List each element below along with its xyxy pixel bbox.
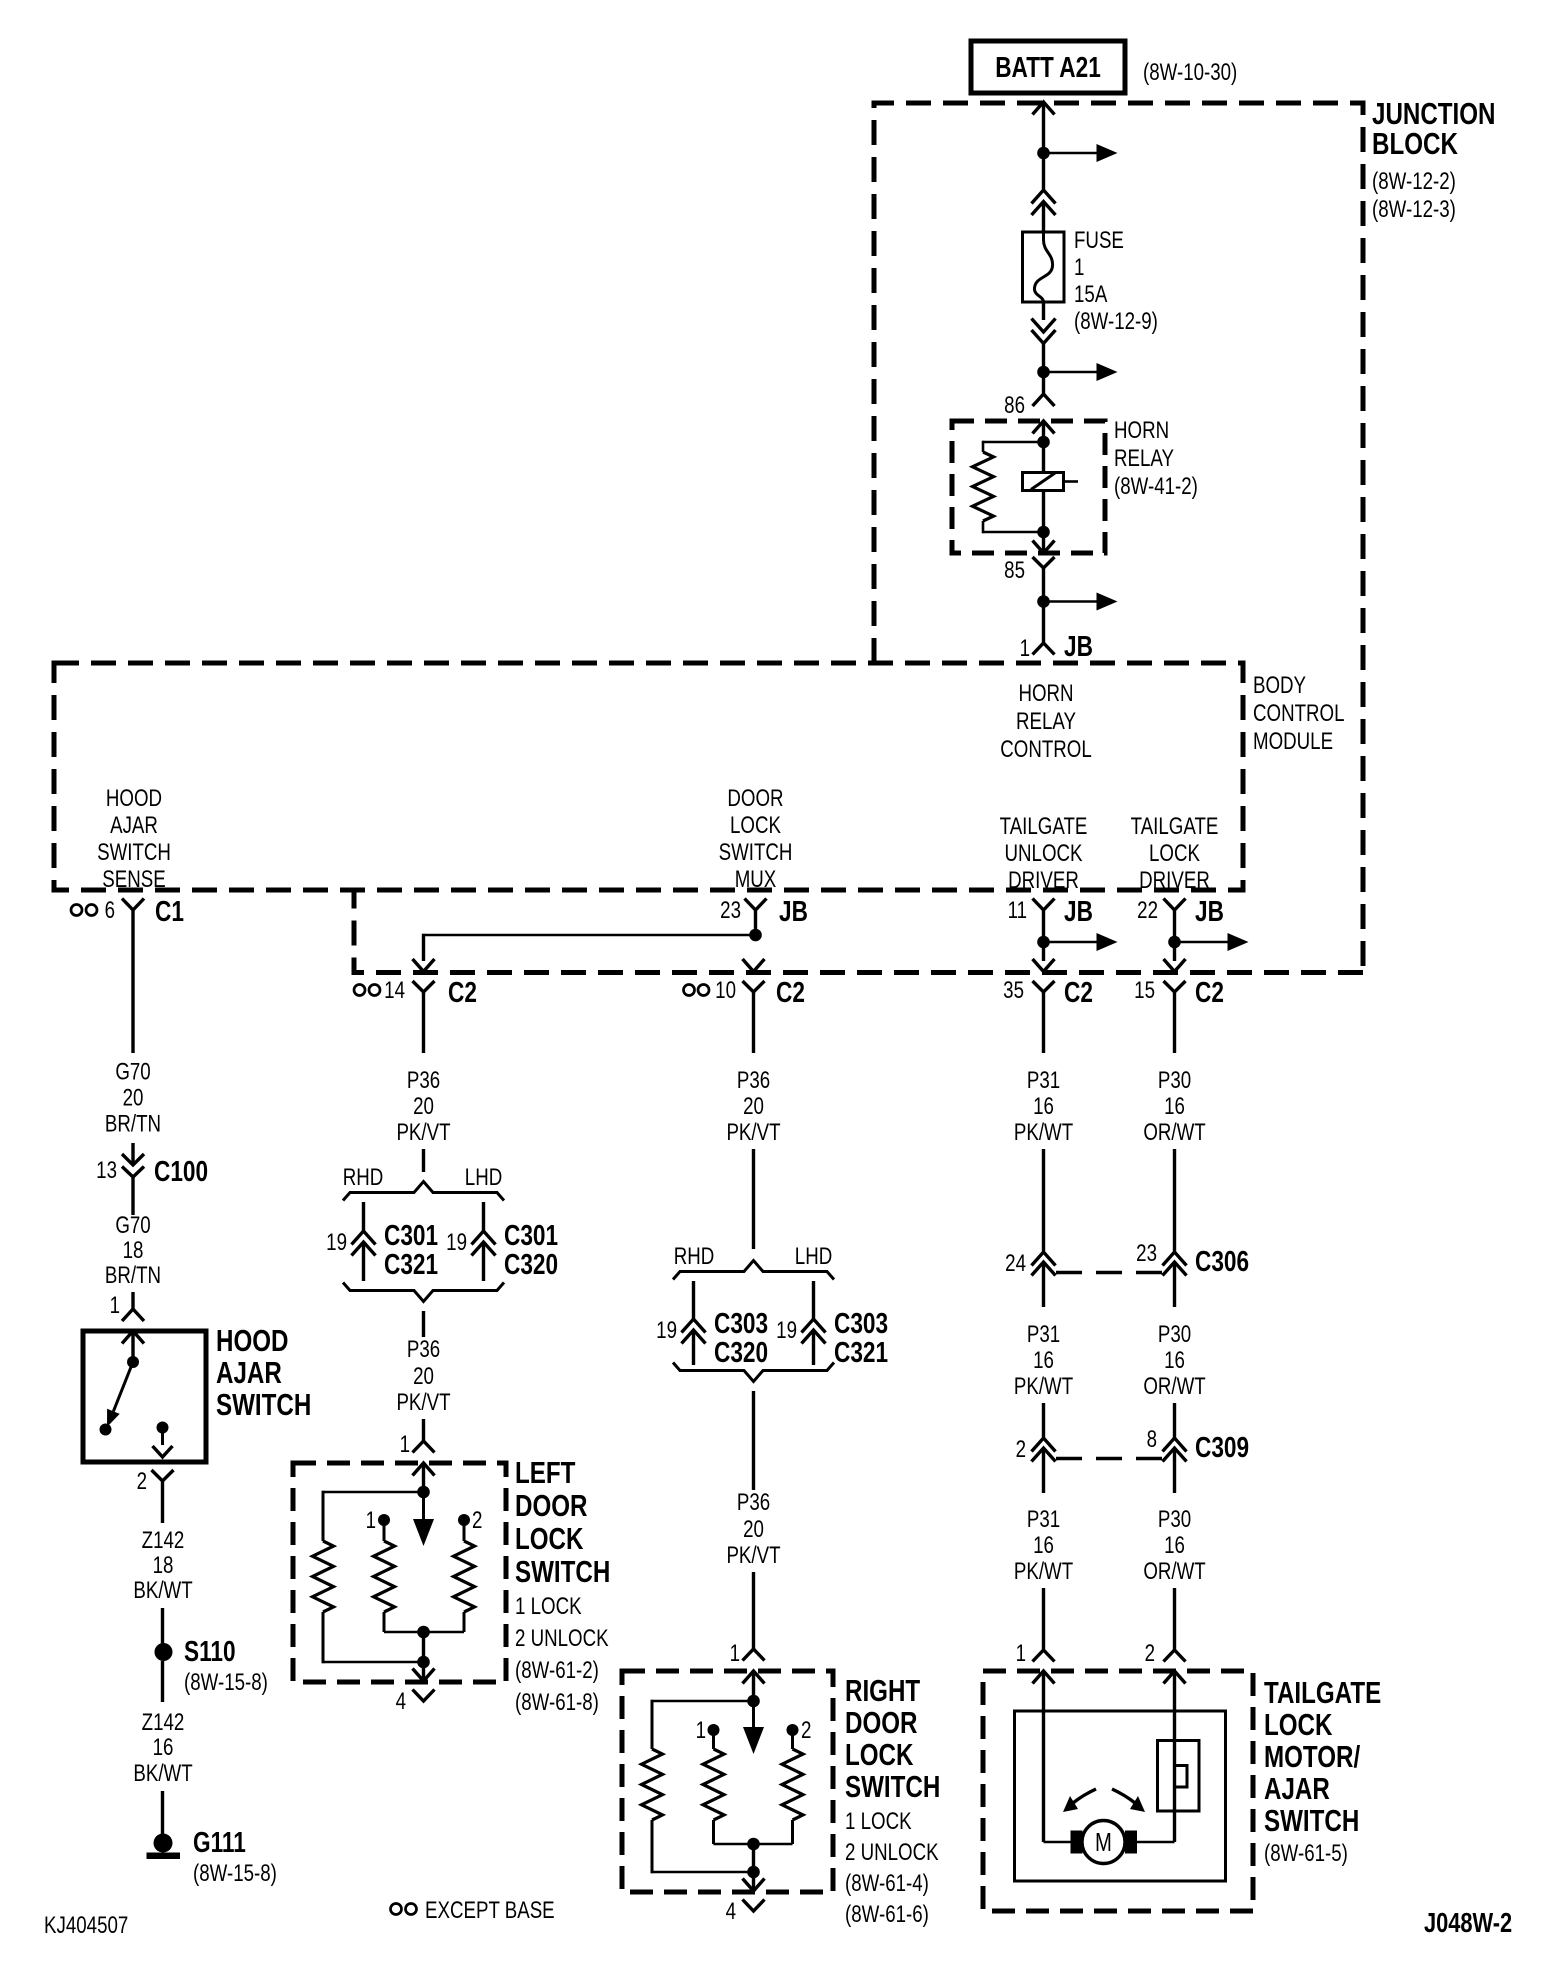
svg-text:20: 20 (413, 1093, 434, 1120)
wire to G111 (161, 1791, 164, 1835)
right door pin 4 male (743, 1872, 765, 1891)
right door lock switch dashed box (622, 1671, 833, 1892)
wire to right door switch pin 1 (752, 1572, 755, 1649)
svg-text:18: 18 (123, 1237, 144, 1264)
svg-text:1 LOCK: 1 LOCK (515, 1593, 582, 1620)
right door contact 1 (708, 1724, 720, 1749)
svg-text:SWITCH: SWITCH (719, 839, 793, 866)
wire fuse to connector (1042, 302, 1045, 320)
label pin 4 right door (726, 1898, 736, 1925)
tailgate unlock driver label (1000, 813, 1088, 894)
label C301 C320 (504, 1218, 558, 1280)
svg-text:1: 1 (730, 1640, 740, 1667)
svg-text:P31: P31 (1027, 1506, 1060, 1533)
svg-text:2: 2 (801, 1717, 811, 1744)
svg-text:PK/VT: PK/VT (726, 1542, 780, 1569)
wire label Z142 18 BK/WT (133, 1527, 192, 1604)
relay coil resistor (973, 452, 994, 521)
svg-text:16: 16 (1164, 1093, 1185, 1120)
right door resistor lock (703, 1749, 724, 1820)
svg-text:4: 4 (726, 1898, 736, 1925)
label 22 JB (1137, 894, 1224, 927)
connector left door pin 1 female (413, 1441, 435, 1453)
tailgate label (1264, 1675, 1381, 1866)
left door node bottom (417, 1656, 430, 1669)
connector pin 85 female (1033, 557, 1055, 602)
svg-text:G70: G70 (115, 1058, 150, 1085)
svg-text:Z142: Z142 (142, 1527, 185, 1554)
label pin 1 right door (730, 1640, 740, 1667)
svg-text:C100: C100 (154, 1154, 208, 1187)
right door pin 1 male (743, 1671, 765, 1701)
label 1 JB (1020, 629, 1093, 662)
connector right door pin 4 (743, 1900, 765, 1912)
footer plate code KJ404507 (44, 1912, 128, 1939)
right door resistor unlock (782, 1749, 803, 1820)
svg-text:2: 2 (137, 1468, 147, 1495)
svg-text:SWITCH: SWITCH (97, 839, 171, 866)
svg-text:2 UNLOCK: 2 UNLOCK (515, 1625, 609, 1652)
connector C309 pin 2 (1032, 1438, 1056, 1493)
branch wire RHD col2 (362, 1202, 365, 1231)
svg-text:P31: P31 (1027, 1321, 1060, 1348)
svg-text:16: 16 (1033, 1532, 1054, 1559)
svg-text:OR/WT: OR/WT (1143, 1119, 1205, 1146)
svg-text:LEFT: LEFT (515, 1455, 575, 1490)
svg-text:SWITCH: SWITCH (1264, 1803, 1359, 1838)
svg-text:1: 1 (696, 1717, 706, 1744)
label contact 2 right door (801, 1717, 811, 1744)
horn relay control label (1000, 680, 1092, 763)
wire node to relay pin 86 (1042, 372, 1045, 394)
label 24 (1005, 1250, 1026, 1277)
wire label P36 20 PK/VT (col3 upper) (726, 1067, 780, 1146)
svg-text:LHD: LHD (465, 1164, 502, 1191)
left door resistor lock (374, 1541, 395, 1612)
svg-text:PK/WT: PK/WT (1014, 1373, 1073, 1400)
wire JB11 to C2 35 (1042, 942, 1045, 961)
arrow feed right 1 (1044, 144, 1118, 162)
svg-text:BK/WT: BK/WT (133, 1577, 192, 1604)
svg-text:35: 35 (1003, 977, 1024, 1004)
tailgate lock motor dashed box (983, 1671, 1253, 1911)
motor brush left (1071, 1831, 1083, 1854)
svg-text:P31: P31 (1027, 1067, 1060, 1094)
wire JB22 to C2 15 (1173, 942, 1176, 961)
label 6 C1 (105, 894, 184, 927)
connector C2 pin 35 (1033, 959, 1055, 1053)
wire label P31 16 PK/WT (mid) (1014, 1321, 1073, 1400)
left door wire r2 to bus (463, 1612, 466, 1632)
fuse label (1074, 227, 1158, 335)
label C303 C321 (834, 1306, 888, 1368)
connector C309 pin 8 (1163, 1438, 1187, 1493)
right door node bottom (747, 1866, 760, 1879)
wire split to label col3 (752, 1391, 755, 1490)
svg-text:86: 86 (1004, 392, 1025, 419)
svg-text:DOOR: DOOR (727, 785, 783, 812)
branch wire LHD col3 (812, 1281, 815, 1319)
motor brush right (1125, 1831, 1137, 1854)
svg-text:19: 19 (446, 1229, 467, 1256)
svg-text:JB: JB (779, 894, 808, 927)
label C303 C320 (714, 1306, 768, 1368)
svg-text:(8W-61-4): (8W-61-4) (845, 1870, 929, 1897)
svg-text:14: 14 (384, 977, 405, 1004)
wire contact to node (1042, 491, 1045, 533)
svg-text:P30: P30 (1158, 1321, 1191, 1348)
wire C2-15 to C306 (1173, 1149, 1176, 1252)
svg-text:J048W-2: J048W-2 (1424, 1907, 1512, 1938)
wire C306 to C309 col5 (1173, 1403, 1176, 1438)
hood ajar switch label (216, 1323, 311, 1422)
relay coil branch wire top (983, 441, 1044, 452)
left door lock switch label (515, 1455, 610, 1715)
svg-text:LOCK: LOCK (1264, 1707, 1332, 1742)
connector right door pin 1 female (743, 1649, 765, 1661)
left door bus (384, 1631, 464, 1634)
body control module label (1253, 672, 1345, 755)
wire label G70 20 BR/TN (upper) (105, 1058, 161, 1137)
tailgate pin 1 male (1033, 1671, 1055, 1842)
C309 dashed tie (1056, 1457, 1162, 1460)
svg-text:UNLOCK: UNLOCK (1005, 840, 1084, 867)
relay node top (1037, 436, 1050, 449)
svg-text:P30: P30 (1158, 1067, 1191, 1094)
tailgate inner case box (1015, 1711, 1226, 1881)
branch wire LHD col2 (482, 1202, 485, 1231)
svg-text:C306: C306 (1195, 1244, 1249, 1277)
svg-text:C2: C2 (448, 975, 477, 1008)
svg-text:JB: JB (1195, 894, 1224, 927)
svg-text:SWITCH: SWITCH (515, 1554, 610, 1589)
label 8 C309 (1147, 1426, 1249, 1464)
left door wire r1 to bus (383, 1612, 386, 1632)
svg-text:C320: C320 (504, 1247, 558, 1280)
left door pin 1 male (413, 1463, 435, 1492)
svg-text:BK/WT: BK/WT (133, 1760, 192, 1787)
connector left door pin 4 (413, 1690, 435, 1702)
wire C306 to C309 col4 (1042, 1403, 1045, 1438)
svg-text:SWITCH: SWITCH (845, 1769, 940, 1804)
svg-text:PK/WT: PK/WT (1014, 1119, 1073, 1146)
body control module dashed outline (54, 663, 1243, 890)
connector hood switch pin 2 female (152, 1470, 174, 1523)
svg-text:LHD: LHD (795, 1243, 832, 1270)
wire label P36 20 PK/VT (col2 lower) (396, 1336, 450, 1416)
svg-text:16: 16 (1164, 1347, 1185, 1374)
wire split to label col2 (422, 1311, 425, 1337)
svg-text:18: 18 (153, 1552, 174, 1579)
svg-text:(8W-12-9): (8W-12-9) (1074, 308, 1158, 335)
svg-text:2: 2 (472, 1507, 482, 1534)
wire to hood switch pin 1 (131, 1292, 134, 1309)
connector tailgate pin 2 female (1164, 1650, 1186, 1662)
svg-text:HORN: HORN (1018, 680, 1073, 707)
wire motor left (1044, 1841, 1072, 1844)
svg-text:OR/WT: OR/WT (1143, 1373, 1205, 1400)
svg-text:1: 1 (1020, 635, 1030, 662)
svg-text:BR/TN: BR/TN (105, 1110, 161, 1137)
connector pin 86 female (1033, 394, 1055, 406)
svg-text:G111: G111 (193, 1825, 246, 1858)
wire to left door switch pin 1 (422, 1419, 425, 1441)
label 23 C306 (1136, 1240, 1249, 1278)
arrow feed right 3 (1044, 593, 1118, 611)
ground G111 (147, 1834, 181, 1860)
svg-text:AJAR: AJAR (1264, 1771, 1330, 1806)
right door wire bus down (752, 1844, 755, 1872)
svg-text:RELAY: RELAY (1016, 708, 1076, 735)
label G111 (193, 1825, 277, 1886)
wire C2-35 to C306 (1042, 1149, 1045, 1252)
connector C1 pin 6 female (122, 899, 144, 1054)
connector C303/C321 double chevron (802, 1319, 826, 1365)
RHD/LHD labels col2 (343, 1164, 502, 1191)
wire label P36 20 PK/VT (col3 lower) (726, 1489, 780, 1569)
svg-text:19: 19 (656, 1317, 677, 1344)
tailgate lock motor M (1082, 1821, 1125, 1864)
label 85 (1004, 557, 1025, 584)
svg-text:4: 4 (396, 1688, 406, 1715)
svg-text:1 LOCK: 1 LOCK (845, 1808, 912, 1835)
RHD/LHD labels col3 (674, 1243, 832, 1270)
label 10 C2 (715, 975, 805, 1008)
svg-text:(8W-12-3): (8W-12-3) (1372, 196, 1456, 223)
svg-text:MUX: MUX (735, 866, 777, 893)
tailgate lock driver label (1131, 813, 1219, 894)
connector C301/C321 double chevron (352, 1231, 376, 1281)
svg-text:2 UNLOCK: 2 UNLOCK (845, 1839, 939, 1866)
svg-text:KJ404507: KJ404507 (44, 1912, 128, 1939)
svg-text:TAILGATE: TAILGATE (1264, 1675, 1381, 1710)
label pin 1 tailgate (1016, 1640, 1026, 1667)
svg-text:FUSE: FUSE (1074, 227, 1124, 254)
tailgate ajar switch housing (1158, 1741, 1200, 1812)
svg-text:RHD: RHD (674, 1243, 715, 1270)
svg-text:TAILGATE: TAILGATE (1131, 813, 1219, 840)
wire label P30 16 OR/WT (upper) (1143, 1067, 1205, 1146)
svg-text:C2: C2 (1064, 975, 1093, 1008)
label pin 2 hood switch (137, 1468, 147, 1495)
arrow feed right JB22 (1175, 933, 1249, 951)
svg-text:(8W-12-2): (8W-12-2) (1372, 168, 1456, 195)
wire node to contact (1042, 442, 1045, 473)
label 11 JB (1008, 894, 1093, 927)
label contact 1 left door (366, 1507, 376, 1534)
svg-text:16: 16 (153, 1734, 174, 1761)
svg-text:C320: C320 (714, 1335, 768, 1368)
split brace bottom col2 (343, 1283, 504, 1302)
right door bus node (747, 1838, 760, 1851)
connector C100 pin 13 (122, 1154, 144, 1202)
right door resistor common (642, 1749, 663, 1820)
label C301 C321 (384, 1218, 438, 1280)
svg-text:SENSE: SENSE (102, 866, 165, 893)
svg-text:DOOR: DOOR (845, 1705, 917, 1740)
connector C306 pin 23 (1163, 1252, 1187, 1307)
wire BATT to node (1033, 102, 1055, 153)
right door wire r2 to bus (791, 1820, 794, 1844)
svg-text:10: 10 (715, 977, 736, 1004)
label 19 LHD col2 (446, 1229, 467, 1256)
wire label Z142 16 BK/WT (133, 1709, 192, 1787)
label 13 C100 (96, 1154, 208, 1187)
node JB23 (749, 929, 762, 942)
except base legend (391, 1897, 555, 1924)
svg-text:2: 2 (1016, 1436, 1026, 1463)
wire label P31 16 PK/WT (lower) (1014, 1506, 1073, 1585)
node splice 3 (1037, 595, 1050, 608)
left door wire bus down (422, 1632, 425, 1662)
arrow feed right 2 (1044, 363, 1118, 381)
wire label P36 20 PK/VT (col2 upper) (396, 1067, 450, 1146)
svg-text:CONTROL: CONTROL (1000, 736, 1092, 763)
svg-text:23: 23 (720, 897, 741, 924)
node JB11 (1037, 936, 1050, 949)
svg-text:19: 19 (776, 1317, 797, 1344)
svg-text:16: 16 (1033, 1347, 1054, 1374)
svg-text:11: 11 (1008, 897, 1027, 924)
svg-text:RHD: RHD (343, 1164, 384, 1191)
svg-text:P36: P36 (737, 1489, 770, 1516)
left door left branch bottom (323, 1612, 424, 1663)
split brace top col3 (673, 1261, 834, 1280)
svg-text:P30: P30 (1158, 1506, 1191, 1533)
svg-text:BODY: BODY (1253, 672, 1306, 699)
wire motor right (1137, 1841, 1175, 1844)
svg-text:PK/WT: PK/WT (1014, 1558, 1073, 1585)
connector JB pin 11 female (1033, 899, 1055, 943)
svg-text:LOCK: LOCK (845, 1737, 913, 1772)
fuse 1 15A (1023, 232, 1065, 302)
label 86 (1004, 392, 1025, 419)
svg-text:15: 15 (1134, 977, 1155, 1004)
connector C301/C320 double chevron (472, 1231, 496, 1281)
svg-text:Z142: Z142 (142, 1709, 185, 1736)
svg-text:LOCK: LOCK (1149, 840, 1201, 867)
label pin 1 left door (400, 1431, 410, 1458)
svg-text:TAILGATE: TAILGATE (1000, 813, 1088, 840)
junction block in-line connector (double chevron) (1032, 190, 1056, 232)
label contact 1 right door (696, 1717, 706, 1744)
tailgate ajar switch contact notch (1175, 1766, 1188, 1788)
left door contact 1 (378, 1514, 390, 1541)
left door bus node (417, 1626, 430, 1639)
relay coil branch wire bottom (983, 521, 1044, 533)
C306 dashed tie (1056, 1271, 1162, 1274)
svg-text:(8W-61-2): (8W-61-2) (515, 1657, 599, 1684)
relay pin 85 male chevron (1033, 532, 1055, 553)
except-base marker C2-10 (684, 985, 710, 996)
wire C2-14 down to split (422, 1149, 425, 1172)
right door wiper arrow (743, 1701, 764, 1754)
hood switch pin 2 male chevron (153, 1446, 173, 1457)
wire node to JB pin 1 (1042, 602, 1045, 644)
svg-text:(8W-15-8): (8W-15-8) (193, 1860, 277, 1887)
svg-text:EXCEPT BASE: EXCEPT BASE (425, 1897, 555, 1924)
svg-text:PK/VT: PK/VT (396, 1389, 450, 1416)
hood switch contact B (157, 1422, 169, 1446)
label 35 C2 (1003, 975, 1093, 1008)
right door contact 2 (787, 1724, 799, 1749)
svg-text:AJAR: AJAR (216, 1355, 282, 1390)
svg-text:C1: C1 (155, 894, 184, 927)
svg-text:P36: P36 (407, 1067, 440, 1094)
svg-text:22: 22 (1137, 897, 1158, 924)
right door left branch bottom (652, 1820, 754, 1873)
right door node top (747, 1695, 760, 1708)
svg-text:20: 20 (413, 1363, 434, 1390)
wire JB23 to left branch (425, 934, 756, 937)
branch wire RHD col3 (692, 1281, 695, 1319)
hood switch common contact (127, 1356, 139, 1368)
svg-text:C2: C2 (1195, 975, 1224, 1008)
svg-text:23: 23 (1136, 1240, 1157, 1267)
svg-text:AJAR: AJAR (110, 812, 158, 839)
svg-text:P36: P36 (407, 1336, 440, 1363)
svg-text:BLOCK: BLOCK (1372, 126, 1458, 161)
label pin 2 tailgate (1145, 1640, 1155, 1667)
right door left branch (652, 1700, 754, 1749)
svg-text:16: 16 (1033, 1093, 1054, 1120)
svg-text:20: 20 (743, 1516, 764, 1543)
connector JB pin 22 female (1164, 899, 1186, 943)
svg-text:(8W-61-5): (8W-61-5) (1264, 1840, 1348, 1867)
footer drawing code J048W-2 (1424, 1907, 1512, 1938)
label pin 1 hood switch (110, 1292, 120, 1319)
svg-text:(8W-61-6): (8W-61-6) (845, 1901, 929, 1928)
in-line connector below fuse (double chevron down) (1032, 319, 1056, 373)
left door left branch (323, 1491, 424, 1541)
split brace bottom col3 (673, 1363, 834, 1382)
wire label P30 16 OR/WT (lower) (1143, 1506, 1205, 1585)
right door wire r1 to bus (712, 1820, 715, 1844)
wire label P30 16 OR/WT (mid) (1143, 1321, 1205, 1400)
wire C1 to C100 (131, 1143, 134, 1165)
label 19 RHD col3 (656, 1317, 677, 1344)
left door contact 2 (458, 1514, 470, 1541)
wire node to connector (1042, 153, 1045, 190)
wire to tailgate pin 2 (1173, 1588, 1176, 1650)
svg-text:PK/VT: PK/VT (396, 1119, 450, 1146)
junction block dashed outline (354, 103, 1363, 973)
hood ajar switch sense label (97, 785, 171, 893)
svg-text:2: 2 (1145, 1640, 1155, 1667)
wire label P31 16 PK/WT (upper) (1014, 1067, 1073, 1146)
svg-text:13: 13 (96, 1157, 117, 1184)
label pin 4 left door (396, 1688, 406, 1715)
svg-text:16: 16 (1164, 1532, 1185, 1559)
left door node top (417, 1486, 430, 1499)
svg-text:BATT A21: BATT A21 (995, 50, 1101, 83)
svg-text:S110: S110 (184, 1634, 236, 1667)
connector hood switch pin 1 female (122, 1309, 144, 1321)
svg-text:LOCK: LOCK (730, 812, 782, 839)
connector tailgate pin 1 female (1033, 1650, 1055, 1662)
label 2 C309 (1016, 1436, 1026, 1463)
svg-text:1: 1 (400, 1431, 410, 1458)
svg-text:DRIVER: DRIVER (1139, 867, 1210, 894)
svg-text:1: 1 (1016, 1640, 1026, 1667)
wire S110 down (161, 1661, 164, 1702)
horn relay label (1114, 417, 1198, 500)
svg-text:PK/VT: PK/VT (726, 1119, 780, 1146)
label S110 (184, 1634, 268, 1695)
svg-text:1: 1 (110, 1292, 120, 1319)
svg-text:15A: 15A (1074, 281, 1108, 308)
svg-text:19: 19 (326, 1229, 347, 1256)
